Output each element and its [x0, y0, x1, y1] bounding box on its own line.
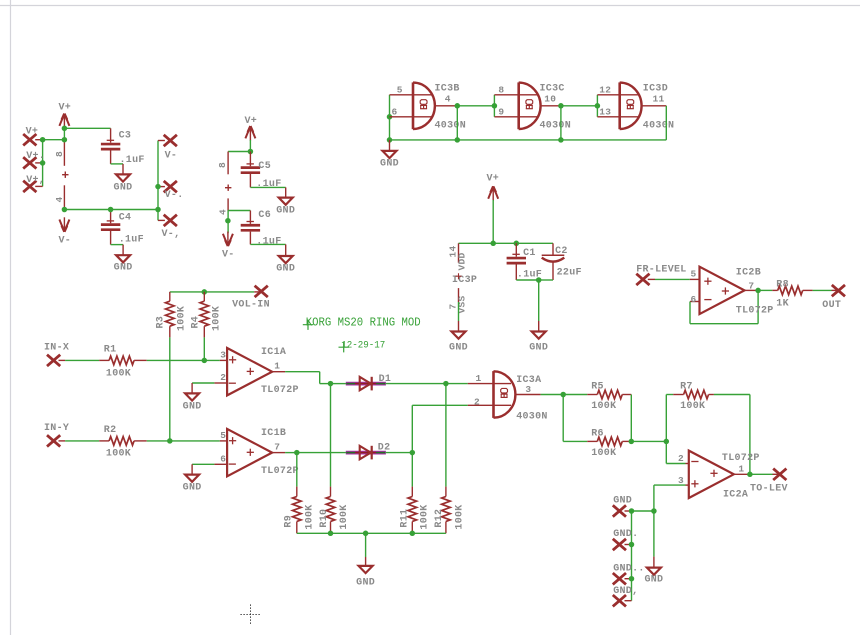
- net flag X FR-LEVEL: [636, 265, 686, 285]
- junction V+ node (IC2P): [248, 149, 254, 155]
- svg-text:2: 2: [474, 396, 480, 407]
- wire node to R5: [563, 394, 587, 396]
- pin stub FR-LEVEL: [648, 278, 655, 280]
- wire VSS to ground: [458, 302, 460, 321]
- svg-text:C1: C1: [523, 248, 536, 259]
- wire C4 to ground: [111, 244, 124, 246]
- svg-text:11: 11: [653, 94, 665, 105]
- wire inverting node to IC2A pin 2: [666, 441, 685, 463]
- svg-text:FR-LEVEL: FR-LEVEL: [636, 265, 686, 276]
- junction rail at IC3B tie: [387, 137, 393, 143]
- wire inverting node up to R7: [666, 395, 673, 442]
- svg-text:R7: R7: [680, 382, 693, 393]
- junction at C4 top: [108, 207, 114, 213]
- svg-text:GND: GND: [613, 495, 632, 506]
- ground at IC1B pin 6: [183, 464, 202, 493]
- wire R5 right down to R6 node: [630, 395, 632, 442]
- junction C1-C2 ground node: [536, 277, 542, 283]
- pin stub GND 4: [625, 600, 632, 602]
- wire resistor bank ground rail: [297, 532, 446, 534]
- wire to diode D1: [331, 383, 347, 385]
- ground below gate rail: [380, 140, 399, 170]
- wire cap node to ground: [538, 280, 540, 321]
- wire IC3B output to ground rail: [456, 106, 458, 140]
- gate IC3B pin 6: [390, 107, 434, 118]
- wire R10 column: [330, 384, 332, 487]
- wire to diode D2: [297, 452, 347, 454]
- wire IC2B feedback: [690, 290, 758, 323]
- junction V+ node (IC3P): [490, 241, 496, 247]
- junction rail R10: [328, 531, 334, 537]
- wire R1 to IC1A pin 3: [147, 359, 220, 361]
- junction IC3C output: [558, 103, 564, 109]
- svg-text:10: 10: [544, 94, 556, 105]
- date text 12-29-17: [339, 341, 386, 353]
- wire V- flags vertical: [157, 141, 159, 221]
- junction GND flag 2: [629, 542, 635, 548]
- svg-text:GND: GND: [276, 206, 295, 217]
- net flag X GND 2: [613, 529, 639, 550]
- resistor R8: [772, 279, 812, 309]
- chip IC3P label: [452, 273, 477, 286]
- junction rail GND tap: [363, 531, 369, 537]
- svg-text:C4: C4: [119, 213, 132, 224]
- wire IC1B pin 6 to ground: [192, 463, 214, 465]
- wire IC2A output to TO-LEV: [750, 473, 773, 475]
- wire IC2B output to R8: [758, 289, 772, 291]
- wire IC3D input tie vertical: [596, 95, 598, 117]
- op-amp power pin 4 (IC2P): [218, 198, 229, 215]
- pin stub V+ flag 1: [35, 139, 44, 141]
- svg-text:R6: R6: [591, 428, 604, 439]
- wire D1 node to IC3A pin 1: [446, 383, 468, 385]
- svg-text:100K: 100K: [591, 401, 616, 412]
- gate IC3B output pin 4: [435, 94, 458, 106]
- svg-text:C2: C2: [555, 246, 568, 257]
- svg-text:GND.: GND.: [613, 529, 638, 540]
- junction IC3A output node: [560, 392, 566, 398]
- junction IC3B output: [455, 103, 461, 109]
- op-amp IC2B body TL072P: [700, 267, 774, 317]
- svg-text:GND: GND: [114, 263, 133, 274]
- resistor R7: [673, 382, 714, 413]
- wire R11 column: [411, 453, 413, 487]
- svg-text:GND..: GND..: [613, 563, 645, 574]
- wire C3 to ground: [111, 163, 123, 165]
- IC3P pin 14 VDD: [448, 243, 468, 270]
- svg-text:100K: 100K: [106, 368, 131, 379]
- svg-text:100K: 100K: [420, 504, 431, 529]
- svg-text:IN-X: IN-X: [44, 343, 69, 354]
- junction GND column top: [651, 508, 657, 514]
- svg-text:V-,: V-,: [162, 229, 181, 240]
- junction GND flag 1: [629, 508, 635, 514]
- wire V+ flags vertical: [42, 140, 44, 187]
- diode D1: [346, 374, 391, 391]
- wire R5R6 node to inverting node: [631, 440, 666, 442]
- net flag X GND 3: [613, 563, 645, 584]
- svg-text:IN-Y: IN-Y: [44, 423, 69, 434]
- ground below C4: [114, 245, 133, 274]
- wire ground rail under gates: [390, 139, 667, 141]
- wire C5 to ground: [250, 186, 285, 188]
- wire V+ flag 1 to power column: [44, 139, 64, 141]
- wire V+ node to pin 8 (IC2P): [228, 151, 250, 153]
- resistor R2: [99, 425, 147, 460]
- op-amp power gate + symbol (IC1P): [62, 172, 68, 178]
- resistor R11: [399, 487, 430, 534]
- resistor R1: [99, 345, 147, 380]
- pin stub V- flag 3: [158, 219, 165, 221]
- capacitor C6: [241, 210, 282, 248]
- op-amp IC2B pin 6: [690, 294, 700, 305]
- svg-text:KORG MS20 RING MOD: KORG MS20 RING MOD: [306, 316, 421, 329]
- svg-text:6: 6: [690, 294, 696, 305]
- pin stub OUT: [832, 289, 837, 291]
- svg-text:GND: GND: [644, 575, 663, 586]
- net flag X VOL-IN: [232, 286, 270, 311]
- svg-text:1: 1: [738, 464, 744, 475]
- wire VDD node horizontal: [459, 242, 554, 244]
- wire IN-X to R1: [65, 359, 99, 361]
- net flag X IN-Y: [44, 423, 69, 447]
- wire IC1A pin 2 to ground: [192, 382, 214, 384]
- junction IN-X with R4: [202, 358, 208, 364]
- svg-text:GND,: GND,: [613, 586, 638, 597]
- resistor R3: [156, 292, 188, 338]
- svg-text:1: 1: [476, 373, 482, 384]
- svg-text:V-: V-: [165, 151, 178, 162]
- ground below C6: [276, 244, 295, 274]
- svg-text:100K: 100K: [177, 306, 188, 331]
- junction D1 cathode / R12: [443, 381, 449, 387]
- svg-text:IC2B: IC2B: [736, 268, 761, 279]
- svg-text:8: 8: [498, 85, 504, 96]
- capacitor C1: [507, 243, 543, 280]
- junction IN-Y with R3: [167, 438, 173, 444]
- svg-text:TL072P: TL072P: [261, 385, 299, 396]
- junction V+ flags: [40, 137, 46, 143]
- svg-text:VOL-IN: VOL-IN: [232, 300, 270, 311]
- svg-text:R9: R9: [283, 515, 294, 528]
- power symbol V+ arrow (IC2P): [244, 116, 257, 141]
- svg-text:GND: GND: [356, 577, 375, 588]
- gate IC3C pin 9: [494, 107, 538, 118]
- svg-text:4030N: 4030N: [435, 120, 467, 131]
- svg-text:8: 8: [217, 162, 228, 168]
- wire C6 to ground: [250, 243, 285, 245]
- pin stub V- flag 1: [158, 140, 165, 142]
- svg-text:V-: V-: [222, 250, 235, 261]
- svg-text:4030N: 4030N: [540, 120, 572, 131]
- wire D2 node up to IC3A pin 2: [412, 405, 468, 452]
- wire R3 to IN-Y net: [169, 337, 171, 441]
- junction rail below IC3B output: [455, 137, 461, 143]
- svg-text:.1uF: .1uF: [256, 237, 281, 248]
- op-amp IC2B output pin 7: [745, 281, 759, 292]
- power symbol V- arrow (IC2P): [222, 232, 235, 261]
- gate IC3D output pin 11: [642, 94, 667, 106]
- svg-text:R10: R10: [319, 509, 330, 528]
- net flag X V+ (1): [23, 127, 38, 146]
- svg-text:TO-LEV: TO-LEV: [750, 484, 788, 495]
- pin stub GND 2: [625, 544, 632, 546]
- op-amp power gate + symbol (IC2P): [225, 185, 231, 191]
- svg-text:R4: R4: [191, 316, 202, 329]
- ground below VSS: [449, 321, 468, 354]
- svg-text:4: 4: [54, 196, 65, 202]
- svg-text:5: 5: [397, 85, 403, 96]
- svg-text:22uF: 22uF: [557, 267, 582, 278]
- gate IC3A pin 2: [468, 396, 511, 407]
- op-amp IC1A pin 2: [214, 372, 227, 383]
- wire V+ arrow down to node: [492, 200, 494, 243]
- net flag X V+ (2): [23, 151, 45, 169]
- junction on power pin column: [62, 137, 68, 143]
- svg-text:4: 4: [218, 209, 229, 215]
- junction rail R11: [410, 531, 416, 537]
- wire R12 column: [445, 384, 447, 487]
- net flag X V+ (3): [23, 175, 45, 192]
- ground below IC2A cluster: [644, 557, 663, 586]
- op-amp IC1A pin 3: [220, 350, 227, 361]
- resistor R5: [587, 382, 631, 413]
- resistor R6: [587, 428, 631, 459]
- svg-text:4030N: 4030N: [516, 411, 548, 422]
- wire R4 to IN-X net: [203, 337, 205, 360]
- svg-text:C6: C6: [258, 210, 271, 221]
- junction V- rail entry: [155, 207, 161, 213]
- resistor R12: [434, 487, 465, 534]
- junction R4 top: [202, 289, 208, 295]
- wire R9 column: [296, 453, 298, 487]
- net flag X V- (2): [164, 181, 184, 201]
- node junction V- rail left: [62, 207, 68, 213]
- wire FR-LEVEL to IC2B pin 5: [655, 278, 690, 280]
- svg-text:7: 7: [274, 441, 280, 452]
- svg-text:100K: 100K: [680, 401, 705, 412]
- ground below resistor bank: [356, 557, 375, 588]
- wire IC1B output to D2 node: [285, 452, 297, 454]
- gate IC3C pin 8: [494, 85, 538, 96]
- svg-text:R11: R11: [399, 509, 410, 528]
- junction D2 cathode / R11: [410, 450, 416, 456]
- svg-text:GND: GND: [114, 182, 133, 193]
- wire pin 4 down to V- (IC2P): [227, 211, 229, 234]
- svg-text:TL072P: TL072P: [736, 305, 774, 316]
- wire V+ arrow to junction (IC2P): [249, 140, 251, 152]
- svg-text:GND: GND: [449, 343, 468, 354]
- net flag X OUT: [822, 285, 845, 311]
- node junction at V+ (64,128): [62, 126, 68, 132]
- op-amp IC1A output pin 1: [272, 361, 285, 372]
- wire C1 bottom to node: [516, 279, 538, 281]
- power symbol V+ arrow (IC3P): [486, 173, 499, 201]
- pin stub VOL-IN flag: [254, 291, 260, 293]
- svg-text:R12: R12: [434, 509, 445, 528]
- svg-text:4030N: 4030N: [643, 120, 675, 131]
- capacitor C3: [101, 128, 145, 166]
- gate IC3A body 4030N: [494, 371, 548, 422]
- wire pin 4 to C6 (IC2P): [228, 210, 250, 212]
- gate IC3B pin 5: [390, 85, 434, 96]
- pin stub IN-X: [59, 359, 66, 361]
- svg-text:IC2A: IC2A: [723, 490, 748, 501]
- op-amp IC1B body TL072P: [227, 428, 299, 477]
- power symbol V- arrow (IC1P): [58, 217, 71, 246]
- resistor R9: [283, 487, 315, 534]
- wire R7 to IC2A output: [714, 395, 750, 475]
- wire IC1A output jog to D1 net: [285, 372, 330, 384]
- svg-text:5: 5: [220, 430, 226, 441]
- svg-text:V+: V+: [486, 173, 499, 184]
- wire V+ arrow to junction: [63, 128, 65, 141]
- svg-text:V+,: V+,: [26, 175, 45, 186]
- svg-text:3: 3: [220, 350, 226, 361]
- svg-text:100K: 100K: [339, 504, 350, 529]
- junction GND flag 3: [629, 576, 635, 582]
- op-amp IC2A output pin 1: [734, 464, 750, 475]
- svg-text:C5: C5: [258, 161, 271, 172]
- svg-text:OUT: OUT: [822, 300, 841, 311]
- junction IC2B output: [755, 288, 761, 294]
- svg-text:TL072P: TL072P: [261, 466, 299, 477]
- svg-text:.1uF: .1uF: [256, 179, 281, 190]
- resistor R4: [191, 292, 223, 338]
- junction IC2A output: [747, 472, 753, 478]
- gate IC3C body 4030N: [519, 82, 571, 131]
- svg-text:V+: V+: [26, 127, 39, 138]
- net flag X GND 4: [613, 586, 639, 607]
- svg-text:6: 6: [220, 453, 226, 464]
- net flag X V- (3): [162, 215, 181, 240]
- svg-text:R3: R3: [156, 316, 167, 329]
- frame border top line: [0, 5, 860, 7]
- wire VOL-IN horizontal: [170, 291, 254, 293]
- pin stub TO-LEV: [773, 473, 779, 475]
- gate IC3A output pin 3: [515, 384, 540, 395]
- wire IC3D output down to rail: [665, 106, 667, 140]
- wire IC3C output to ground rail: [560, 106, 562, 140]
- svg-text:GND: GND: [183, 483, 202, 494]
- op-amp IC1B pin 6: [214, 453, 227, 464]
- wire IC3B input tie vertical: [389, 95, 391, 140]
- svg-text:3: 3: [525, 384, 531, 395]
- svg-text:3: 3: [678, 475, 684, 486]
- junction IC3B pin6: [387, 114, 393, 120]
- svg-text:7: 7: [748, 281, 754, 292]
- svg-text:12-29-17: 12-29-17: [341, 341, 385, 352]
- junction rail below IC3C output: [558, 137, 564, 143]
- svg-text:100K: 100K: [591, 448, 616, 459]
- op-amp IC2A body TL072P: [689, 451, 760, 501]
- junction V- flag 2: [155, 184, 161, 190]
- resistor R10: [319, 487, 350, 534]
- wire D1 cathode to R12 node: [386, 383, 446, 385]
- gate IC3A pin 1: [468, 373, 511, 384]
- svg-text:TL072P: TL072P: [722, 453, 760, 464]
- wire V- rail: [64, 209, 158, 211]
- net flag X GND 1: [613, 495, 632, 516]
- op-amp IC1B pin 5: [220, 430, 227, 441]
- wire R2 to IC1B pin 5: [147, 440, 220, 442]
- svg-text:9: 9: [498, 107, 504, 118]
- svg-text:V-.: V-.: [165, 190, 184, 201]
- wire pin3 column to ground: [653, 511, 655, 557]
- wire IC2A pin 3 to ground cluster: [654, 485, 686, 511]
- svg-text:V-: V-: [58, 236, 71, 247]
- gate IC3D pin 13: [597, 107, 639, 118]
- junction R5-R6 node: [629, 439, 635, 445]
- junction C1 tap: [514, 241, 520, 247]
- junction D2 anode node / R9: [294, 450, 300, 456]
- svg-text:2: 2: [678, 453, 684, 464]
- wire rail to ground: [365, 533, 367, 557]
- junction inverting input node: [664, 439, 670, 445]
- power symbol V+ arrow (IC1P): [58, 103, 71, 129]
- gate IC3D pin 12: [597, 85, 639, 96]
- wire node down to R6: [563, 395, 587, 442]
- svg-text:100K: 100K: [455, 504, 466, 529]
- svg-text:GND: GND: [276, 264, 295, 275]
- frame border left line: [10, 0, 12, 635]
- svg-text:R5: R5: [591, 382, 604, 393]
- wire GND flag 1 to pin3 column: [632, 510, 654, 512]
- wire R8 to OUT: [813, 289, 832, 291]
- capacitor C2: [542, 243, 582, 280]
- ground at IC1A pin 2: [183, 383, 202, 412]
- svg-text:4: 4: [445, 94, 451, 105]
- svg-text:6: 6: [392, 107, 398, 118]
- net flag X TO-LEV: [750, 469, 788, 495]
- pin stub V+ flag 2: [35, 162, 42, 164]
- op-amp IC2A pin 3: [678, 475, 689, 486]
- wire GND flags vertical: [631, 511, 633, 601]
- ground below C3: [114, 164, 133, 193]
- gate IC3C output pin 10: [541, 94, 561, 106]
- svg-text:100K: 100K: [106, 449, 131, 460]
- svg-text:1: 1: [274, 361, 280, 372]
- svg-text:V+: V+: [244, 116, 257, 127]
- wire D2 cathode to R11 node: [386, 452, 412, 454]
- wire IC3C output to IC3D inputs: [561, 105, 598, 107]
- svg-text:100K: 100K: [212, 306, 223, 331]
- gate IC3B body 4030N: [413, 82, 466, 131]
- op-amp IC1A body TL072P: [227, 347, 299, 396]
- pin stub V+ flag 3: [35, 185, 42, 187]
- IC3P pin 7 VSS: [448, 288, 468, 313]
- wire IN-Y to R2: [65, 440, 99, 442]
- net flag X IN-X: [44, 343, 69, 367]
- svg-text:GND: GND: [529, 343, 548, 354]
- origin cross marker: [241, 605, 261, 625]
- wire IC3A output to R5/R6 node: [541, 394, 564, 396]
- svg-text:V+.: V+.: [26, 151, 45, 162]
- pin stub V- flag 2: [158, 186, 165, 188]
- op-amp IC2B pin 5: [690, 269, 700, 280]
- svg-text:100K: 100K: [305, 504, 316, 529]
- ground below C5: [276, 187, 295, 216]
- svg-text:5: 5: [690, 269, 696, 280]
- op-amp IC2A pin 2: [678, 453, 689, 464]
- title text KORG MS20 RING MOD: [303, 316, 421, 330]
- junction IC3D input: [595, 103, 601, 109]
- junction on V- wire (IC2P): [225, 218, 231, 224]
- svg-text:2: 2: [220, 372, 226, 383]
- diode D2: [346, 443, 391, 460]
- svg-text:IC1B: IC1B: [261, 428, 286, 439]
- op-amp power pin 4 (IC1P): [54, 185, 65, 209]
